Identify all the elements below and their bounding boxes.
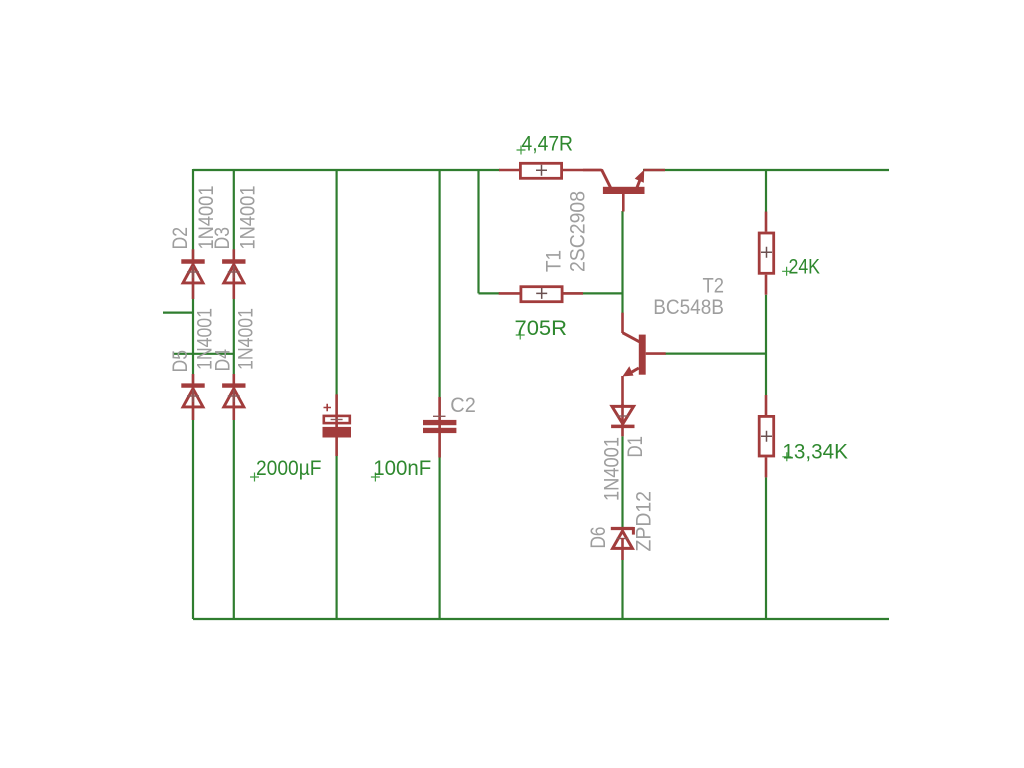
label C2 name <box>450 394 476 417</box>
label R1 value 4,47R <box>517 133 574 156</box>
label T2 value BC548B <box>653 296 724 319</box>
svg-text:13,34K: 13,34K <box>782 441 848 464</box>
label D3 name rotated <box>211 227 234 250</box>
svg-text:2000µF: 2000µF <box>256 457 322 480</box>
svg-text:D2: D2 <box>169 227 192 250</box>
resistor 24K <box>759 212 774 295</box>
label R4 value 13,34K <box>782 441 848 464</box>
wire right column x=766 <box>765 170 767 619</box>
wire top rail left segment <box>193 169 500 171</box>
wire 705R row y=293.4 <box>479 292 623 294</box>
label D5 name rotated <box>169 350 192 373</box>
label D2 name rotated <box>169 227 192 250</box>
wire T2 base row y=353.6 <box>665 353 766 355</box>
svg-text:T2: T2 <box>703 275 725 298</box>
wire C2 column x=439.6 <box>439 170 441 619</box>
label D6 value ZPD12 rotated <box>633 491 656 552</box>
svg-text:2SC2908: 2SC2908 <box>567 191 590 272</box>
label C2 value 100nF <box>371 457 431 482</box>
diode D2 <box>181 249 204 299</box>
svg-text:C2: C2 <box>450 394 476 417</box>
label D4 name rotated <box>212 349 235 372</box>
wire D1-D6 link x=622.5 <box>621 436 623 527</box>
svg-text:D5: D5 <box>169 350 192 373</box>
label D1 value 1N4001 rotated <box>601 437 624 501</box>
wire AC input stub 2 <box>173 353 234 355</box>
svg-text:ZPD12: ZPD12 <box>633 491 656 552</box>
diode D4 <box>222 374 245 420</box>
wire T1 base to T2 collector x=622.5 <box>621 211 623 313</box>
label T2 name <box>703 275 725 298</box>
label C1 value 2000uF <box>250 457 322 482</box>
resistor 4,47R <box>499 163 602 178</box>
label T1 name rotated <box>543 250 566 272</box>
svg-text:24K: 24K <box>789 256 821 279</box>
capacitor C1 2000uF <box>323 394 352 456</box>
svg-text:T1: T1 <box>543 250 566 272</box>
svg-text:BC548B: BC548B <box>653 296 724 319</box>
diode D5 <box>181 374 204 420</box>
label D6 name rotated <box>587 527 610 549</box>
wire column x=233.8 <box>233 170 235 619</box>
resistor 13,34K <box>759 395 774 477</box>
svg-text:705R: 705R <box>515 317 568 340</box>
svg-text:D4: D4 <box>212 349 235 372</box>
svg-text:1N4001: 1N4001 <box>601 437 624 501</box>
svg-text:4,47R: 4,47R <box>522 133 574 156</box>
svg-text:D1: D1 <box>624 436 647 458</box>
label D4 value 1N4001 rotated <box>234 308 257 370</box>
wire bottom rail <box>193 618 889 620</box>
label D5 value 1N4001 rotated <box>194 308 217 370</box>
capacitor C2 100nF <box>423 397 456 458</box>
label D3 value 1N4001 rotated <box>236 186 259 250</box>
svg-text:1N4001: 1N4001 <box>234 308 257 370</box>
label R3 value 24K <box>782 256 820 279</box>
svg-text:D3: D3 <box>211 227 234 250</box>
svg-text:100nF: 100nF <box>373 457 431 480</box>
label D2 value 1N4001 rotated <box>195 186 218 250</box>
resistor 705R <box>499 287 583 302</box>
transistor T2 <box>623 313 666 405</box>
zener diode D6 <box>611 527 634 560</box>
diode D3 <box>222 249 245 299</box>
diode D1 <box>611 404 634 436</box>
wire C1 column x=336.6 <box>336 170 338 619</box>
wire D6 to bottom rail <box>621 560 623 619</box>
svg-text:D6: D6 <box>587 527 610 549</box>
wire vertical x=478.5 to 705R <box>477 169 479 293</box>
wire AC input stub 1 <box>163 312 193 314</box>
label T1 value 2SC2908 rotated <box>567 191 590 272</box>
wire top rail right segment <box>643 169 889 171</box>
label R2 value 705R <box>515 317 568 340</box>
wire left column x=193 <box>192 169 194 619</box>
label D1 name rotated <box>624 436 647 458</box>
transistor T1 <box>583 170 665 212</box>
svg-text:1N4001: 1N4001 <box>236 186 259 250</box>
